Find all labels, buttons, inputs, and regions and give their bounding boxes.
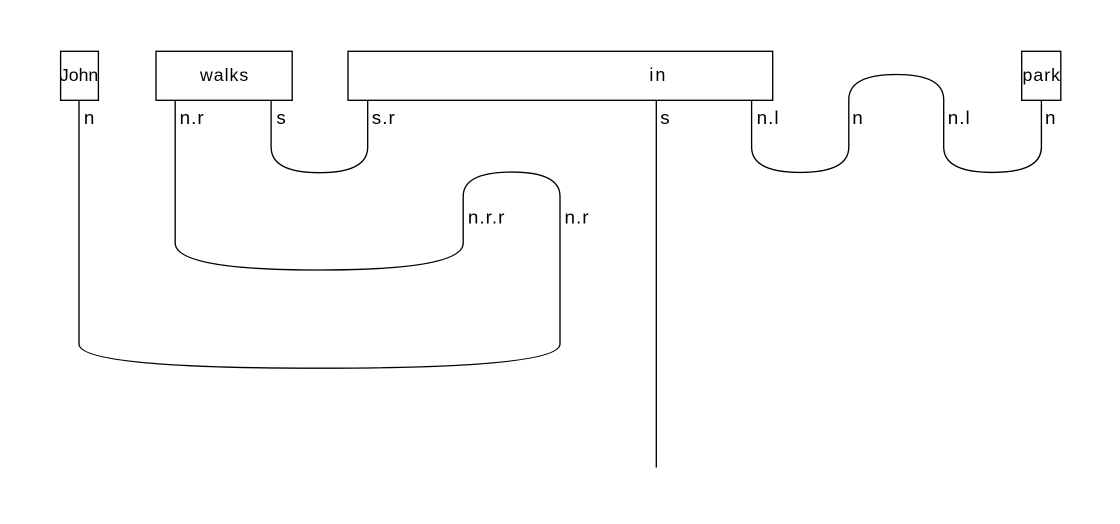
svg-text:n.l: n.l — [757, 108, 780, 129]
svg-text:John: John — [60, 65, 98, 85]
svg-text:s: s — [660, 108, 670, 129]
svg-text:n.r: n.r — [180, 108, 205, 129]
svg-text:walks: walks — [199, 65, 249, 85]
svg-text:n.r.r: n.r.r — [468, 207, 506, 228]
svg-text:n: n — [852, 108, 864, 129]
svg-text:n: n — [1045, 108, 1057, 129]
svg-text:n.r: n.r — [565, 207, 590, 228]
svg-text:s: s — [276, 108, 286, 129]
svg-text:in: in — [649, 65, 667, 85]
svg-text:n: n — [84, 108, 96, 129]
svg-text:s.r: s.r — [372, 108, 396, 129]
svg-text:n.l: n.l — [948, 108, 971, 129]
svg-text:park: park — [1023, 65, 1061, 85]
